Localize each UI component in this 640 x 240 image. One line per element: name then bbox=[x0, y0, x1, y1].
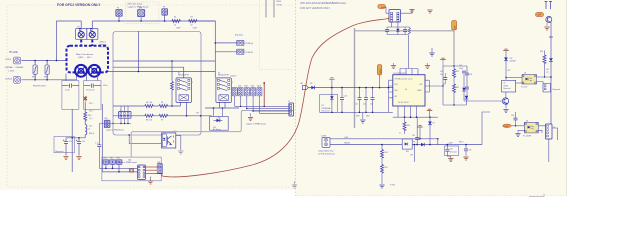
junction dot riser bbox=[138, 71, 140, 73]
svg-text:on PCB (cabinet fan): on PCB (cabinet fan) bbox=[318, 152, 335, 155]
connector CN11L bbox=[232, 88, 237, 96]
lower bus y112.3 bbox=[320, 111, 393, 113]
wire row2 bbox=[113, 115, 212, 117]
transformer T1 dashed box bbox=[67, 46, 109, 73]
svg-text:PROTECTION: PROTECTION bbox=[33, 86, 46, 88]
svg-text:F2: F2 bbox=[163, 7, 165, 9]
capacitor C10 bbox=[340, 98, 344, 100]
wire ic left rail bbox=[388, 80, 390, 112]
gray cable outline bbox=[131, 111, 293, 158]
svg-text:300V: 300V bbox=[380, 68, 382, 74]
ground under C4 bbox=[76, 157, 81, 160]
power flag x443 bbox=[440, 58, 446, 59]
wire stub to tx1 bbox=[76, 75, 78, 80]
wire main bus y87.5 bbox=[308, 87, 393, 89]
optocoupler U3 bbox=[522, 75, 537, 85]
svg-text:FOR GFC2 VERSION ONLY: FOR GFC2 VERSION ONLY bbox=[57, 3, 101, 7]
box bridge B1 bbox=[402, 139, 412, 149]
IC U1 top pins bbox=[400, 69, 418, 75]
wire CON1 to transformer bbox=[22, 60, 67, 62]
capacitor C27 bbox=[462, 71, 466, 73]
svg-text:U3: U3 bbox=[524, 73, 526, 75]
svg-text:CN9: CN9 bbox=[251, 86, 254, 88]
junction dot r24 bbox=[381, 144, 383, 146]
svg-text:TO Ba: TO Ba bbox=[277, 5, 283, 7]
svg-text:FOR ANY VERSION ONLY: FOR ANY VERSION ONLY bbox=[300, 7, 331, 10]
ground top right small bbox=[427, 10, 432, 13]
svg-text:R21: R21 bbox=[456, 71, 459, 73]
wire y67 to relay1 bbox=[113, 67, 184, 78]
svg-text:CN6: CN6 bbox=[157, 162, 160, 164]
svg-text:FB2: FB2 bbox=[395, 90, 398, 92]
wire r8 to row1 bbox=[171, 90, 173, 106]
junction dots pwb2 bbox=[105, 168, 120, 173]
svg-text:1/2W: 1/2W bbox=[193, 28, 197, 30]
wire r3 to coil bbox=[84, 120, 86, 124]
junction dots buses left bbox=[331, 87, 343, 113]
svg-text:240V ~ : 24V ~: 240V ~ : 24V ~ bbox=[78, 57, 93, 59]
label tag gold x454 bbox=[452, 21, 457, 31]
svg-text:R25: R25 bbox=[385, 167, 388, 169]
schematic cream background left page bbox=[0, 0, 296, 190]
wire J1 left blue bbox=[381, 7, 389, 13]
wire y108 led feed bbox=[205, 107, 239, 109]
svg-text:Reserved: Reserved bbox=[55, 150, 63, 153]
wire x437.8 drop bbox=[437, 139, 439, 145]
svg-text:Copper to PWB2 board: Copper to PWB2 board bbox=[246, 123, 266, 126]
svg-text:PGND: PGND bbox=[390, 185, 396, 187]
connector CN4 bbox=[104, 120, 110, 128]
wire j4 top pins bbox=[121, 106, 128, 112]
svg-text:U1: U1 bbox=[405, 89, 407, 91]
svg-text:R30 0: R30 0 bbox=[459, 142, 463, 144]
svg-text:0V_1: 0V_1 bbox=[89, 118, 93, 120]
wire +24 row2 bbox=[330, 144, 482, 146]
junction dots harness bbox=[240, 106, 265, 112]
wire pwb2 bus2 bbox=[102, 171, 137, 173]
svg-text:24V: 24V bbox=[546, 69, 549, 71]
svg-text:R22: R22 bbox=[456, 87, 459, 89]
transformer winding W1 bbox=[75, 65, 87, 77]
junction dot c28 bbox=[515, 125, 516, 126]
wire y123.5 bbox=[99, 123, 131, 125]
IC U1 bottom pins bbox=[398, 106, 417, 117]
diode D7 bbox=[396, 29, 399, 32]
svg-text:1N4148: 1N4148 bbox=[510, 60, 516, 62]
svg-text:10nF: 10nF bbox=[459, 68, 463, 70]
svg-text:240VAC ~ 240VAC: 240VAC ~ 240VAC bbox=[5, 66, 24, 69]
diode D9 down bbox=[428, 122, 432, 125]
resistor R2 bbox=[189, 20, 198, 23]
svg-text:R26: R26 bbox=[540, 51, 543, 53]
svg-text:C25: C25 bbox=[412, 135, 415, 137]
svg-text:aux: aux bbox=[546, 71, 549, 73]
svg-text:CN7: CN7 bbox=[238, 86, 241, 88]
capacitor C31 bbox=[464, 149, 468, 151]
svg-text:R2: R2 bbox=[191, 17, 193, 19]
svg-text:24V: 24V bbox=[455, 25, 457, 29]
resistor R26 vertical bbox=[543, 55, 546, 64]
IC U1 inner texts bbox=[395, 77, 423, 104]
wire c31 leads bbox=[465, 145, 467, 156]
resistor R1 bbox=[172, 20, 181, 23]
optocoupler U12 bbox=[162, 133, 176, 148]
wire d11 top bbox=[505, 51, 507, 58]
crystal Y1 bbox=[130, 169, 134, 172]
dotted box test switch bbox=[125, 2, 158, 23]
wire inner riser x138.4 bbox=[137, 31, 139, 72]
wire red out3 bbox=[146, 173, 163, 176]
svg-text:Copper to PWB2 board: Copper to PWB2 board bbox=[128, 5, 149, 8]
wire opto u12 out bbox=[176, 136, 181, 150]
svg-text:R23: R23 bbox=[407, 125, 410, 127]
transformer winding W2 bbox=[88, 65, 100, 77]
zener box bbox=[320, 94, 338, 112]
power flag mid bottom bbox=[417, 126, 423, 127]
connector CN8 bbox=[244, 88, 249, 96]
ground top J1 bbox=[409, 10, 414, 13]
wire base feed y101 bbox=[464, 100, 502, 102]
svg-text:TP2: TP2 bbox=[410, 155, 413, 157]
yellow oval label PWR bbox=[503, 124, 512, 127]
divider bottom marker bbox=[292, 185, 297, 188]
capacitor C24 bbox=[465, 87, 469, 89]
ground pwb2 bbox=[148, 181, 153, 184]
wire bottom link y105 bbox=[443, 104, 467, 106]
svg-text:C30: C30 bbox=[450, 149, 453, 151]
junction dot red bbox=[263, 82, 265, 84]
wire y61 relay feed bbox=[113, 60, 215, 62]
dashed wire breaker2 to box bbox=[91, 40, 93, 47]
svg-text:CON9: CON9 bbox=[321, 135, 326, 137]
svg-text:J2: J2 bbox=[288, 101, 290, 103]
resistor R20 bbox=[408, 28, 410, 34]
ground c30 bbox=[448, 159, 453, 162]
wire relay2 pins down bbox=[220, 102, 226, 108]
svg-text:0.1: 0.1 bbox=[399, 133, 401, 135]
resistor R24 vertical bbox=[381, 150, 384, 159]
svg-text:PC_817: PC_817 bbox=[521, 87, 528, 89]
svg-text:TX GFCI: TX GFCI bbox=[100, 47, 108, 49]
svg-text:CN8: CN8 bbox=[244, 86, 247, 88]
wire riser x482 bbox=[482, 112, 490, 145]
wire c4 leads bbox=[78, 138, 80, 156]
svg-text:4.7u: 4.7u bbox=[69, 141, 72, 143]
wire left vertical x102.3 bbox=[102, 104, 137, 172]
wire gnd stub bbox=[150, 177, 152, 181]
gray offpage stub1 bbox=[265, 0, 267, 18]
wire to opto2 bbox=[511, 125, 524, 127]
varistor RV1 bbox=[33, 61, 37, 80]
wire rail into cn12 bbox=[550, 115, 552, 124]
section box main bbox=[113, 32, 201, 136]
svg-text:Cabinet: Cabinet bbox=[230, 75, 237, 78]
wire c30 leads bbox=[446, 145, 448, 157]
wire opto2 right pins bbox=[538, 126, 545, 133]
svg-text:C11: C11 bbox=[355, 104, 358, 106]
wire red forks to J1 bbox=[388, 16, 391, 21]
wire r22 down bbox=[453, 92, 455, 105]
resistor R8 vertical bbox=[171, 82, 174, 91]
wire tag drop bbox=[379, 75, 381, 88]
svg-text:CON_L: CON_L bbox=[5, 59, 13, 61]
power flag right bbox=[427, 109, 433, 110]
relay K1 bbox=[176, 78, 191, 103]
resistor R5 row1 bbox=[159, 105, 168, 108]
connector CON8B bbox=[237, 49, 244, 54]
ground c31 bbox=[463, 157, 468, 160]
wire red solenoid drop bbox=[263, 83, 265, 107]
capacitor C30 bbox=[445, 149, 449, 151]
junction dot ic rail bbox=[388, 87, 390, 89]
wire L1 down bbox=[84, 135, 86, 138]
connector CN9 bbox=[251, 88, 256, 96]
wire opto u12 in2 bbox=[129, 135, 161, 144]
wire ic top link bbox=[400, 68, 418, 70]
wire comps bottom row bbox=[387, 31, 408, 34]
svg-text:GND_S: GND_S bbox=[89, 133, 94, 135]
schematic cream background right page bbox=[296, 0, 567, 196]
diode D13 on rail bbox=[549, 58, 553, 61]
relay K2 bbox=[216, 78, 231, 103]
box CN11 bbox=[543, 84, 551, 93]
transistor Q2 top right bbox=[546, 17, 552, 23]
connector CN1 bbox=[103, 160, 109, 165]
wire cap bus bbox=[66, 137, 85, 139]
junction dots row2 bbox=[186, 115, 202, 117]
capacitor C22 left labels bbox=[443, 78, 447, 80]
svg-text:10n: 10n bbox=[440, 74, 443, 76]
svg-text:D6: D6 bbox=[322, 105, 324, 107]
svg-text:Reserved: Reserved bbox=[450, 151, 457, 153]
wire x172 drop bbox=[171, 61, 173, 81]
ground under cap bank bbox=[362, 112, 364, 119]
svg-text:C31: C31 bbox=[469, 150, 472, 152]
connector CON2 bbox=[14, 76, 21, 83]
junction dot rail bbox=[550, 76, 552, 78]
svg-text:CN1: CN1 bbox=[103, 158, 106, 160]
svg-text:R10: R10 bbox=[88, 115, 91, 117]
connector CON9 bbox=[322, 137, 330, 147]
wire relay1 pins down bbox=[181, 102, 187, 115]
junction dots c30 c31 bbox=[447, 144, 467, 146]
gray bus horizontal bbox=[355, 30, 455, 32]
capacitor C21 bbox=[403, 30, 407, 32]
capacitor C11 bbox=[358, 98, 362, 100]
svg-text:F3: F3 bbox=[413, 142, 415, 144]
svg-text:U4: U4 bbox=[526, 121, 528, 123]
svg-text:CN2: CN2 bbox=[110, 158, 113, 160]
svg-text:PWR: PWR bbox=[504, 126, 510, 128]
svg-text:GND24: GND24 bbox=[344, 143, 350, 145]
svg-text:10: 10 bbox=[191, 24, 193, 26]
svg-text:P6KE200A: P6KE200A bbox=[322, 107, 332, 110]
wire zener stubs bbox=[331, 88, 333, 113]
svg-text:24V_1: 24V_1 bbox=[89, 103, 94, 105]
diode D10 bbox=[421, 143, 424, 147]
gray offpage stub2 bbox=[273, 0, 275, 18]
wire c3 leads bbox=[65, 138, 67, 156]
svg-text:+24: +24 bbox=[537, 13, 542, 17]
svg-text:CN3: CN3 bbox=[116, 158, 119, 160]
power flag F1 bbox=[329, 78, 335, 79]
junction dot u2 top bbox=[505, 77, 506, 78]
page divider dashed bbox=[295, 0, 297, 196]
wire r25 to gnd bbox=[381, 173, 383, 184]
capacitor C20 bbox=[385, 30, 389, 32]
wire c6 chain bbox=[98, 124, 100, 169]
svg-text:C27: C27 bbox=[459, 65, 462, 67]
svg-text:4.7u: 4.7u bbox=[82, 141, 85, 143]
svg-text:RELAY-DPST: RELAY-DPST bbox=[218, 74, 230, 77]
tick on rail bbox=[549, 36, 553, 38]
wire f2 stub bbox=[164, 15, 166, 21]
right page right edge bbox=[566, 0, 568, 196]
connector CN3 bbox=[116, 160, 122, 165]
diode D8 down bbox=[465, 96, 469, 99]
resistor R22 vertical bbox=[453, 84, 456, 93]
wire solenoid branch1 bbox=[215, 42, 236, 44]
svg-text:LM431: LM431 bbox=[503, 85, 508, 87]
svg-text:C23: C23 bbox=[469, 74, 472, 76]
resistor R3 vertical bbox=[84, 112, 87, 121]
svg-text:TNY280 switcher circuit: TNY280 switcher circuit bbox=[395, 77, 413, 80]
svg-text:CON8_B: CON8_B bbox=[245, 52, 253, 54]
svg-text:CON_N: CON_N bbox=[5, 78, 13, 80]
resistor R4 row1 bbox=[145, 105, 154, 108]
diode in bridge bbox=[405, 143, 408, 146]
wire CON2 line bbox=[22, 79, 77, 81]
connector CN7 bbox=[238, 88, 243, 96]
capacitor C4 electrolytic bbox=[77, 142, 81, 144]
wire d8 down bbox=[466, 100, 468, 105]
junction dots y108 bbox=[213, 107, 224, 109]
wire red curve to right page bbox=[162, 19, 389, 177]
fuse F1 bbox=[116, 9, 122, 16]
junction dots bus bbox=[118, 20, 165, 22]
wire left riser x56.4 bbox=[55, 21, 57, 61]
wire opto1 right pins bbox=[537, 77, 552, 84]
capacitor C1 bbox=[62, 84, 79, 88]
svg-text:R24: R24 bbox=[385, 152, 388, 154]
junction dot solenoid bbox=[215, 42, 217, 44]
gray bus drop right bbox=[453, 31, 455, 62]
svg-text:PE-B: PE-B bbox=[277, 1, 282, 3]
junction dots y123.5 bbox=[112, 123, 128, 124]
wire cn12 right bbox=[552, 128, 558, 140]
junction dots 24v rows bbox=[416, 138, 438, 145]
svg-text:R7: R7 bbox=[161, 120, 163, 122]
svg-text:SW: SW bbox=[139, 7, 142, 9]
svg-text:TP1: TP1 bbox=[196, 113, 199, 115]
connector CN10 bbox=[257, 88, 262, 96]
svg-text:C28: C28 bbox=[511, 115, 514, 117]
wire cn12 down bbox=[548, 139, 550, 162]
diode D12 down left bbox=[462, 88, 466, 91]
left page dashed border bbox=[7, 5, 293, 187]
junction dots cap bus bbox=[71, 137, 79, 139]
bottom right corner bracket bbox=[529, 194, 544, 197]
capacitor C28 bbox=[514, 118, 518, 120]
wire harness rows bbox=[235, 106, 289, 113]
pwb2 section box bbox=[102, 157, 161, 181]
net labels column bbox=[89, 103, 94, 135]
junction dot r26 bbox=[544, 76, 545, 77]
wire pwb2 bus1 bbox=[99, 167, 137, 169]
capacitor C13 bbox=[371, 98, 375, 100]
wire solenoid branch2 bbox=[215, 51, 236, 53]
wire ic right pins rail bbox=[428, 80, 430, 92]
wire j1 right to gnd bbox=[401, 10, 413, 14]
svg-text:OUT: OUT bbox=[419, 84, 423, 86]
wire d12 chain bbox=[463, 74, 465, 101]
wire d11 down bbox=[505, 61, 507, 80]
diode D5 bbox=[311, 86, 314, 90]
junction dots bottom bus bbox=[404, 116, 431, 118]
svg-text:R27: R27 bbox=[508, 70, 511, 72]
wire +24 row1 bbox=[330, 138, 438, 140]
junction dots AC wires bbox=[34, 60, 57, 81]
label tag gold right bbox=[536, 13, 544, 17]
junction dot x172 bbox=[171, 60, 173, 62]
svg-text:CN4: CN4 bbox=[104, 118, 107, 120]
LED box DL1 bbox=[210, 117, 229, 131]
svg-text:C22: C22 bbox=[440, 71, 443, 73]
wire red out2 bbox=[146, 169, 158, 171]
svg-text:GFCI test switch: GFCI test switch bbox=[128, 3, 143, 6]
opto IC U11 bbox=[138, 165, 146, 180]
ground opto2 bbox=[518, 130, 524, 132]
wire right rail to x443 bbox=[429, 66, 443, 105]
svg-text:C13: C13 bbox=[370, 104, 373, 106]
diode D1 bridge bbox=[83, 96, 87, 101]
ground harness red bbox=[250, 113, 252, 116]
label tag gold above IC bbox=[377, 65, 382, 76]
diode D11 top right bbox=[504, 58, 508, 61]
wire cn drops bbox=[106, 164, 119, 172]
ground flag right of IC top bbox=[425, 66, 430, 69]
svg-text:Copper to PWB2 board: Copper to PWB2 board bbox=[106, 129, 124, 132]
connector CON8A bbox=[237, 40, 244, 45]
fuse F2 bbox=[162, 9, 168, 16]
box U2 LM431 bbox=[502, 80, 516, 92]
svg-text:L1: L1 bbox=[88, 129, 90, 131]
wire bus to solenoid riser bbox=[197, 21, 215, 78]
junction dots cap bank bbox=[359, 87, 381, 113]
capacitor C3 electrolytic bbox=[64, 142, 68, 144]
svg-text:CN10: CN10 bbox=[257, 86, 261, 88]
svg-text:0V_2: 0V_2 bbox=[89, 126, 93, 128]
bottom bus y117.2 bbox=[393, 116, 438, 118]
top connector J1 bbox=[389, 10, 401, 23]
right rail x551 bbox=[550, 22, 552, 115]
wire sw stub bbox=[140, 17, 142, 21]
junction dot u12 bbox=[128, 134, 130, 136]
led DL1 bbox=[214, 117, 223, 122]
junction dots right bank bbox=[442, 65, 454, 105]
resistor R6 row2 bbox=[145, 114, 154, 117]
wire tx out bus y71.5 bbox=[108, 71, 215, 73]
capacitor C6 bbox=[97, 145, 101, 147]
box CN12 bbox=[546, 124, 553, 139]
capacitor C23 bbox=[465, 73, 469, 75]
transistor Q1 bbox=[502, 98, 508, 104]
test switch SW1 bbox=[137, 9, 144, 16]
led pin stubs bbox=[214, 108, 223, 117]
wire comps top row bbox=[387, 22, 409, 29]
connector block J4 bbox=[119, 112, 131, 119]
capacitor C12 bbox=[364, 98, 368, 100]
